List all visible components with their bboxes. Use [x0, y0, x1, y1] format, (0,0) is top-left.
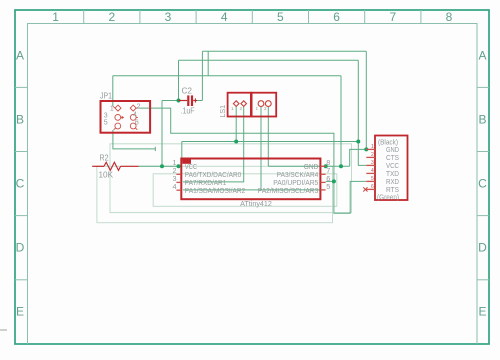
svg-text:B: B [478, 113, 486, 127]
svg-text:4: 4 [133, 112, 137, 119]
LS1 pins [233, 101, 271, 107]
wire LS1 pin2 to IC pin3 row [183, 106, 244, 181]
svg-text:1: 1 [231, 106, 234, 111]
svg-text:2: 2 [371, 152, 374, 158]
svg-text:1: 1 [256, 106, 259, 111]
U1 value label ATtiny412 [240, 199, 272, 208]
svg-text:6: 6 [371, 184, 374, 190]
svg-text:E: E [16, 305, 24, 319]
wire UPDI loop to FTDI RXD [334, 181, 366, 213]
group rectangle outer [97, 166, 333, 222]
wire UPDI to IC pin6 stub [326, 180, 334, 182]
svg-text:10K: 10K [99, 171, 114, 180]
LS1 pin numbers [231, 106, 267, 111]
connector J1 FTDI body [375, 136, 408, 201]
wire GND top rail [202, 50, 366, 52]
svg-text:5: 5 [326, 182, 330, 191]
frame column ticks [84, 10, 421, 24]
wire VCC top rail [179, 59, 359, 61]
C2 value label [181, 107, 195, 116]
C2 name label [182, 87, 193, 96]
wire C2 right to GND rail [197, 51, 203, 100]
wire VCC branch row [182, 141, 358, 143]
capacitor C2 [179, 95, 198, 106]
U1 left pin names [185, 162, 246, 195]
svg-text:C2: C2 [182, 87, 193, 96]
speaker LS1 body [228, 93, 277, 117]
svg-text:7: 7 [389, 10, 396, 24]
svg-text:C: C [478, 177, 487, 191]
group rectangle middle [110, 144, 352, 213]
svg-text:1: 1 [371, 144, 374, 150]
wire GND mid rail [113, 75, 341, 77]
svg-text:C: C [16, 177, 25, 191]
svg-text:3: 3 [104, 112, 108, 119]
JP1 pin numbers [104, 104, 141, 127]
frame row ticks [15, 87, 489, 279]
svg-text:(Green): (Green) [377, 193, 399, 202]
wire VCC branch drop to IC pin1 corner [181, 142, 183, 162]
svg-text:5: 5 [277, 10, 284, 24]
frame column numbers [52, 10, 452, 24]
svg-text:LS1: LS1 [220, 105, 227, 118]
JP1 pins [113, 105, 138, 130]
wire VCC R2 to IC pin1 [139, 165, 181, 167]
U1 right pin stubs [320, 166, 325, 190]
group rectangle inner [153, 174, 337, 207]
svg-text:E: E [478, 305, 486, 319]
wire JP1 pin1 to GND mid rail [112, 76, 114, 107]
J1 pin stubs [366, 149, 375, 189]
wire JP1 pin5 to VCC riser [113, 130, 155, 151]
wire IC pin4 to pin5 row [183, 189, 320, 191]
svg-text:A: A [16, 49, 24, 63]
svg-text:PA2/MISO/SCL/AR3: PA2/MISO/SCL/AR3 [258, 186, 319, 195]
wire C2 left up to VCC rail [178, 60, 180, 100]
svg-text:PA1/SDA/MOSI/AR2: PA1/SDA/MOSI/AR2 [185, 186, 246, 195]
J1 pin labels [377, 137, 399, 201]
svg-text:6: 6 [333, 10, 340, 24]
connector JP1 [101, 101, 151, 133]
U1 right pin numbers [326, 158, 330, 191]
wire VCC riser to C2 left [162, 101, 179, 167]
svg-text:A: A [478, 49, 486, 63]
svg-text:4: 4 [221, 10, 228, 24]
svg-text:ATtiny412: ATtiny412 [240, 199, 272, 208]
J1 pin numbers [371, 144, 374, 190]
wire GND rail to mid rail link [207, 51, 209, 75]
svg-text:1: 1 [110, 105, 114, 112]
resistor R2 [92, 162, 138, 170]
svg-text:D: D [16, 241, 25, 255]
svg-text:.1uF: .1uF [181, 107, 195, 116]
wire LS1 pin3 drop to row4 [260, 106, 262, 189]
svg-text:4: 4 [371, 168, 374, 174]
svg-text:R2: R2 [100, 154, 109, 163]
wire IC pin8 GND row [268, 165, 349, 167]
J1 RTS no-connect cross [363, 187, 367, 191]
svg-text:D: D [478, 241, 487, 255]
svg-text:2: 2 [240, 106, 243, 111]
junction dots [160, 99, 368, 184]
svg-text:2: 2 [264, 106, 267, 111]
wire VCC rail down to FTDI VCC pin [358, 60, 366, 165]
svg-text:5: 5 [371, 176, 374, 182]
svg-text:2: 2 [108, 10, 115, 24]
fold mark left edge [0, 329, 7, 331]
R2 value label [99, 171, 114, 180]
R2 name label [100, 154, 109, 163]
svg-text:3: 3 [165, 10, 172, 24]
U1 left pin numbers [172, 158, 176, 191]
svg-text:5: 5 [104, 119, 108, 126]
U1 left pin stubs [176, 174, 181, 190]
wire GND row up to FTDI GND pin [350, 149, 367, 166]
svg-text:1: 1 [52, 10, 59, 24]
svg-text:3: 3 [371, 160, 374, 166]
svg-text:2: 2 [137, 104, 141, 111]
wire GND mid rail down to IC GND row [340, 76, 342, 167]
op IC U1 ATtiny412 body [181, 158, 320, 199]
svg-text:B: B [16, 113, 24, 127]
LS1 name label [220, 105, 227, 118]
wire JP1 pin2 UPDI run [136, 108, 334, 181]
svg-text:6: 6 [135, 120, 139, 127]
svg-text:JP1: JP1 [100, 92, 112, 101]
wire LS1 pin4 drop to GND row [267, 106, 269, 166]
svg-text:4: 4 [172, 182, 176, 191]
U1 right pin names [258, 162, 319, 195]
wire GND rail down to FTDI GND junction [365, 51, 367, 149]
frame row letters [16, 49, 488, 319]
JP1 name label [100, 92, 112, 101]
svg-text:8: 8 [446, 10, 453, 24]
wire LS1 pin1 drop to VCC branch [235, 106, 237, 141]
